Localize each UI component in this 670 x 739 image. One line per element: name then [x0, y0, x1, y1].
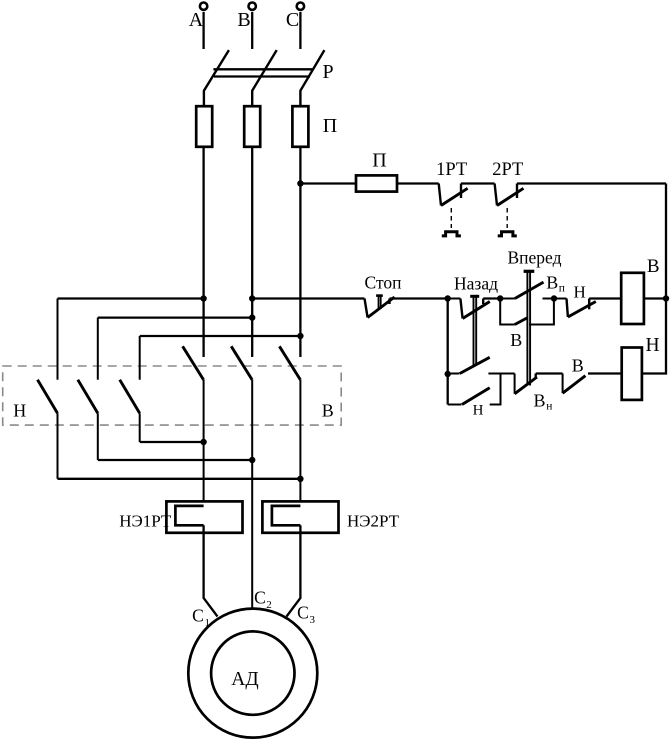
node junction after Vpered [551, 295, 557, 301]
svg-text:В: В [546, 272, 558, 292]
svg-text:Н: Н [573, 283, 585, 302]
node junction row2 [445, 371, 451, 377]
node rail junction [663, 295, 669, 301]
node junction on C bottom [297, 476, 303, 482]
2РТ dashed actuator link [506, 208, 508, 228]
svg-text:Стоп: Стоп [365, 273, 402, 293]
wire phase B vertical [251, 147, 253, 357]
fuse П phase A [196, 106, 212, 147]
svg-text:Н: Н [13, 400, 26, 420]
svg-text:п: п [559, 283, 565, 295]
wire routing H3 top [140, 335, 301, 337]
contact В aux NO (row2) [563, 374, 586, 394]
svg-text:НЭ2РТ: НЭ2РТ [347, 512, 400, 531]
svg-text:Назад: Назад [454, 274, 498, 294]
wire heater A to motor [204, 525, 218, 616]
button Назад actuator stem [470, 296, 479, 365]
wire coil B to rail [644, 297, 666, 299]
wire routing H2 top [98, 316, 252, 318]
terminal A [200, 2, 207, 9]
terminal C [297, 2, 304, 9]
node junction after Stop [445, 295, 451, 301]
heater НЭ2РТ [262, 501, 338, 532]
wire routing H1 top [58, 297, 204, 299]
fuse П phase B [244, 106, 260, 147]
svg-text:С: С [297, 603, 309, 623]
node junction on B bottom [249, 457, 255, 463]
button Вперед NO contact Вп (row1) [500, 282, 554, 298]
1РТ dashed actuator link [450, 208, 452, 228]
button Назад NO contact (row2) [448, 357, 515, 373]
1РТ release symbol [442, 232, 461, 236]
node junction before Vpered [497, 295, 503, 301]
svg-text:Р: Р [322, 61, 333, 83]
contact 2РТ (thermal relay NC) [495, 184, 524, 206]
svg-text:В: В [572, 356, 584, 376]
contact Н interlock NC (row1) [554, 299, 596, 318]
wire control row1 from B to Stop [252, 297, 364, 299]
wire C terminal lead [299, 12, 301, 49]
node junction on A [200, 295, 206, 301]
wire fuse to 1PT [397, 182, 439, 184]
switch P blade phase A [204, 50, 229, 106]
wire right rail [642, 184, 666, 374]
wire Вн to В contact [536, 372, 563, 374]
svg-text:В: В [647, 256, 660, 277]
svg-text:В: В [237, 9, 250, 31]
switch P linkage bar [213, 68, 313, 70]
svg-text:В: В [510, 330, 522, 350]
svg-text:П: П [323, 115, 337, 137]
wire 2PT to right rail [517, 182, 666, 184]
wire phase A vertical [202, 147, 204, 357]
svg-text:С: С [254, 588, 266, 608]
button Стоп (NC pushbutton) [365, 296, 395, 318]
wire B terminal lead [251, 12, 253, 49]
motor АД inner circle [211, 631, 294, 714]
svg-text:Н: Н [473, 403, 484, 419]
svg-text:2РТ: 2РТ [492, 160, 523, 180]
motor АД outer circle [188, 609, 317, 738]
svg-text:Вперед: Вперед [508, 248, 562, 268]
heater НЭ1РТ [166, 501, 242, 532]
svg-text:С: С [192, 606, 204, 626]
wire 1PT to 2PT [461, 182, 495, 184]
wire routing H2 bottom [98, 459, 252, 461]
svg-text:АД: АД [231, 669, 258, 690]
svg-text:П: П [372, 150, 386, 172]
wire to coil B [589, 297, 621, 299]
dashed contactor box [3, 366, 342, 425]
wire to coil H [588, 372, 622, 374]
contact В1 main (phase A) [183, 346, 204, 501]
svg-text:НЭ1РТ: НЭ1РТ [119, 512, 172, 531]
contact В2 main (phase B) [231, 346, 252, 608]
contact Н self-hold NO (parallel branch) [448, 374, 501, 405]
fuse П control [356, 175, 397, 191]
svg-text:н: н [546, 401, 552, 413]
contact В3 main (phase C) [279, 346, 300, 501]
contact Н3 main [120, 336, 140, 442]
svg-text:С: С [286, 9, 299, 31]
node control tap on B [249, 295, 255, 301]
node junction on B [249, 314, 255, 320]
wire heater C to motor [287, 525, 301, 616]
terminal B [249, 2, 256, 9]
contact Н2 main [78, 318, 98, 460]
wire phase C vertical [299, 147, 301, 357]
fuse П phase C [292, 106, 308, 147]
node junction on C [297, 333, 303, 339]
svg-text:3: 3 [310, 614, 316, 626]
wire routing H3 bottom [140, 441, 204, 443]
wire to control fuse [300, 182, 356, 184]
2РТ release symbol [498, 232, 517, 236]
button Назад NC contact (row1) [448, 299, 490, 319]
switch P blade phase B [252, 50, 277, 106]
wire branch down to row2 [447, 299, 449, 405]
contact В seal-in (parallel with Вперед) [500, 299, 554, 325]
wire A terminal lead [202, 12, 204, 49]
coil Н (reverse contactor) [622, 348, 642, 400]
wire to node [483, 297, 500, 299]
contact Вн NC (row2) [515, 374, 537, 394]
coil В (forward contactor) [621, 273, 644, 324]
svg-text:Н: Н [646, 335, 660, 356]
svg-text:В: В [533, 390, 545, 410]
svg-text:В: В [322, 400, 334, 420]
node junction on A bottom [200, 439, 206, 445]
button Вперед actuator stem [524, 271, 535, 385]
svg-text:1РТ: 1РТ [436, 160, 467, 180]
wire Stop to node [390, 297, 448, 299]
node junction on C fuse branch [297, 180, 303, 186]
switch P blade phase C [300, 50, 324, 106]
contact Н1 main [38, 299, 58, 479]
svg-text:А: А [189, 9, 204, 31]
contact 1РТ (thermal relay NC) [439, 184, 468, 206]
wire routing H1 bottom [58, 478, 301, 480]
